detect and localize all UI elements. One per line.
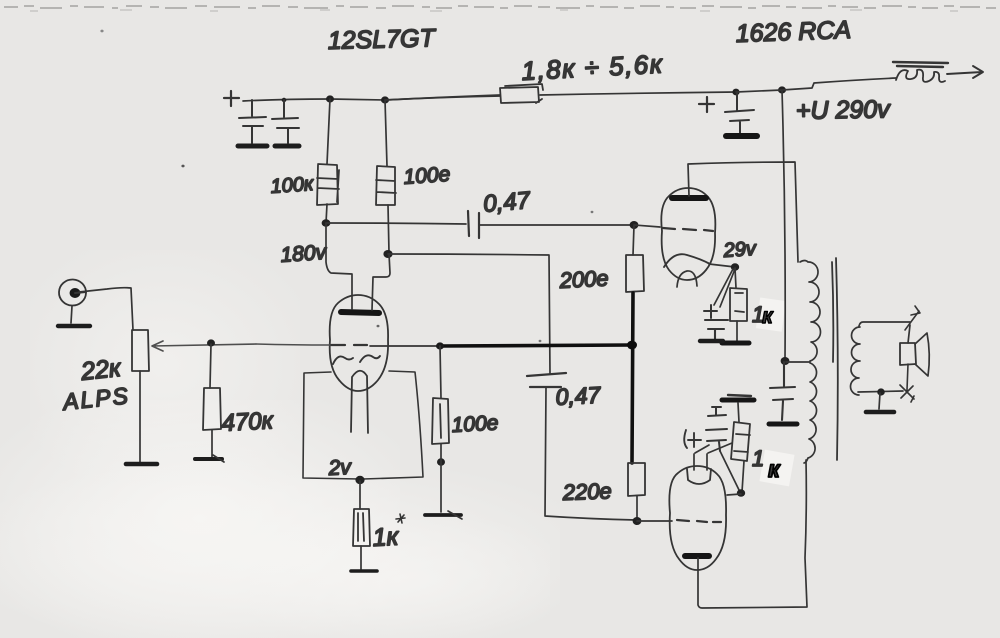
wire 1k to ground: [736, 321, 738, 341]
junction 180v node: [322, 219, 331, 227]
wire 100k to 180v node: [326, 204, 327, 223]
bold wire from cathode of 12SL7 (marker): [440, 345, 632, 346]
svg-text:к: к: [768, 456, 781, 482]
resistor 100e cathode of follower: [432, 398, 449, 444]
wire 100e to ground: [440, 444, 442, 512]
box wire loop right part: [363, 371, 423, 479]
junction 2v cathode node: [355, 476, 364, 484]
wire lower cap down and to lower grid node: [545, 388, 637, 520]
tube 1626 lower envelope: [669, 466, 726, 570]
svg-text:180v: 180v: [280, 241, 329, 267]
svg-text:12SL7GT: 12SL7GT: [327, 24, 436, 55]
output choke winding: [896, 70, 945, 82]
ground of secondary: [866, 410, 894, 415]
resistor 1k cathode upper 1626: [730, 288, 747, 321]
asterisk of 1k: [396, 514, 405, 523]
wire jack sleeve down: [71, 306, 72, 323]
grid dashes of 12SL7: [331, 344, 367, 346]
white patch behind bold k lower: [759, 450, 794, 487]
ground of C3: [726, 133, 757, 139]
plus sign of left filter caps: [224, 91, 239, 106]
wire 180v node to coupling cap: [326, 223, 466, 224]
anode staircase wire left (from 180v node): [326, 223, 352, 309]
speaker body: [900, 343, 916, 365]
resistor 1k cathode lower 1626 (slanted): [738, 403, 739, 422]
wire secondary bottom to speaker: [858, 391, 903, 392]
ground of C2: [275, 144, 299, 149]
junction anode node of first triode: [383, 250, 392, 258]
svg-text:22к: 22к: [79, 354, 124, 386]
transformer primary lower section: [804, 363, 817, 463]
wire speaker top lead: [908, 325, 910, 343]
svg-text:к: к: [762, 305, 774, 328]
box wire loop around 12SL7 bottom: [303, 372, 360, 479]
ground of C1: [238, 144, 267, 149]
resistor 100k left plate load: [317, 164, 339, 205]
speaker cone: [915, 333, 929, 376]
resistor 470k grid leak: [203, 388, 221, 430]
svg-text:100e: 100e: [403, 163, 451, 189]
wire 29v node down to 1k: [735, 268, 736, 288]
transformer core lines: [832, 258, 838, 460]
capacitor 0,47 coupling upper: [468, 211, 479, 238]
wire 1k to ground: [360, 546, 362, 569]
wire cathode node to tube: [727, 494, 741, 495]
wire 100e down to anode node: [388, 205, 389, 253]
wire 29v node to bypass cap: [714, 269, 735, 307]
wire grid wire pot to tube: [256, 344, 330, 345]
svg-text:220e: 220e: [561, 478, 612, 505]
junction rail / 100k right: [381, 96, 389, 103]
ground bar above lower 1626: [722, 398, 754, 403]
wire 220e to lower grid node: [636, 496, 638, 520]
resistor 100e right plate load: [376, 166, 396, 205]
svg-text:200e: 200e: [558, 265, 609, 293]
cathode arcs of 12SL7: [333, 355, 380, 364]
wire grid node down to 470k: [210, 344, 211, 388]
ground of upper bypass cap: [700, 339, 723, 343]
tube 12SL7 envelope: [330, 295, 388, 391]
wire rail to dropper resistor: [385, 95, 500, 100]
svg-text:0,47: 0,47: [482, 187, 533, 218]
plus sign of upper bypass cap: [704, 305, 717, 318]
wire upper anode to transformer top: [688, 162, 798, 262]
svg-text:1: 1: [752, 446, 764, 471]
resistor 200e: [626, 255, 644, 292]
heater loop of upper 1626: [677, 271, 697, 287]
ground of jack: [58, 324, 90, 328]
junction +U cap: [732, 89, 739, 96]
wire rail down to 100e right: [385, 100, 387, 166]
resistor 1,8k-5,6k dropper: [500, 84, 543, 103]
speaker top terminal arrow: [905, 306, 920, 330]
output arrow to load: [947, 66, 983, 78]
junction C2 to rail: [282, 98, 287, 102]
svg-text:2v: 2v: [327, 456, 353, 480]
transformer primary upper section: [800, 261, 821, 362]
wire grid through envelope right side: [370, 345, 440, 347]
bold junction: [627, 341, 637, 350]
wire 2v node to 1k cathode resistor: [359, 481, 361, 509]
anode bar of first triode: [341, 312, 379, 313]
grid dashes of upper 1626: [663, 228, 713, 231]
capacitor C1 filter electrolytic: [239, 100, 266, 143]
ground of tap bypass cap: [769, 422, 797, 427]
ground of pot: [126, 462, 157, 467]
junction B+ feed down: [778, 86, 786, 93]
wire rail dropper to +U node: [540, 92, 736, 95]
wire grid node into upper 1626: [634, 225, 660, 227]
capacitor 0,47 lower (horizontal plates): [527, 373, 566, 387]
heater loop of 12SL7: [351, 371, 368, 433]
ground of 100e: [425, 513, 461, 517]
wire lower grid node into lower 1626: [637, 520, 672, 522]
anode bar of lower 1626: [685, 553, 709, 559]
grid dashes of lower 1626: [677, 520, 721, 522]
wire anode node toward lower coupling cap: [388, 254, 550, 374]
wire 1k down to cathode junction: [720, 451, 744, 492]
wire tap node to primary: [786, 361, 810, 363]
junction lower grid node: [633, 517, 642, 525]
cathode legs of lower 1626: [694, 454, 707, 470]
svg-text:1к: 1к: [372, 523, 400, 552]
potentiometer 22k body: [132, 330, 149, 371]
wire B+ feed down to transformer tap: [782, 90, 785, 361]
junction below 100e: [437, 458, 445, 466]
speaker bottom terminal cross: [900, 364, 914, 402]
potentiometer wiper arrow: [152, 341, 256, 351]
junction transformer tap node: [781, 357, 790, 365]
wire cathode node down to 100e bias resistor: [440, 346, 441, 398]
svg-text:29v: 29v: [722, 238, 758, 262]
wire secondary top to speaker: [859, 322, 910, 326]
junction secondary ground node: [877, 388, 885, 395]
svg-text:1626 RCA: 1626 RCA: [735, 16, 851, 48]
bold wire 200e to 220e (marker): [632, 293, 633, 463]
junction rail / 100k left: [326, 95, 334, 102]
input jack: [59, 279, 86, 305]
wire rail down to 100k left: [327, 99, 330, 164]
cathode arc of upper 1626: [664, 254, 710, 267]
ground of 1k upper: [722, 341, 749, 346]
ground of 1k cathode resistor: [351, 569, 377, 573]
wire jack to pot top: [79, 288, 133, 330]
svg-text:100e: 100e: [451, 412, 499, 437]
junction 29v cathode node: [731, 263, 739, 271]
cathode cup of lower 1626: [687, 469, 711, 484]
svg-text:+U 290v: +U 290v: [796, 95, 892, 125]
capacitor bypass lower 1626: [706, 407, 727, 451]
anode bar of upper 1626: [672, 195, 706, 201]
stray ink specks: [181, 165, 184, 168]
plus sign of +U cap: [699, 97, 714, 112]
wire 200e node down: [633, 225, 634, 255]
wire ground stub secondary: [879, 393, 880, 409]
capacitor bypass upper 1626: [705, 320, 728, 339]
svg-text:470к: 470к: [221, 407, 275, 437]
resistor 220e: [628, 463, 645, 496]
wire B+ rail left section: [243, 96, 500, 101]
resistor 1k cathode of 12SL7: [353, 509, 370, 546]
junction cathode-follower node at envelope right: [436, 342, 444, 349]
output choke core bars: [893, 62, 948, 67]
svg-text:0,47: 0,47: [555, 382, 602, 410]
wire legs to bias parts: [695, 443, 732, 453]
wire pot bottom to ground: [139, 371, 141, 462]
junction grid leak node: [207, 339, 215, 346]
junction cathode node lower: [737, 489, 745, 497]
capacitor C2 filter electrolytic: [272, 100, 299, 143]
capacitor C3 at +U electrolytic: [725, 92, 754, 133]
ground of 470k: [195, 457, 222, 461]
tube 1626 upper envelope: [661, 188, 715, 280]
wire lower anode to transformer bottom: [698, 460, 807, 608]
input jack pin dot: [70, 288, 81, 298]
wire coupling cap to 200e node: [480, 224, 634, 226]
wire 470k to ground: [211, 430, 213, 457]
junction 200e node / grid of upper 1626: [630, 221, 639, 229]
anode staircase wire right (from anode node): [372, 254, 390, 310]
jack pin tail: [75, 292, 86, 293]
wire cathode to 29v node: [709, 264, 735, 267]
transformer secondary winding: [851, 327, 861, 395]
svg-text:100к: 100к: [270, 173, 316, 198]
wire rail to output choke: [736, 78, 896, 92]
plus sign of lower bypass cap: [684, 430, 701, 448]
white patch behind bold k: [756, 297, 786, 331]
capacitor bypass at tap: [770, 362, 795, 420]
